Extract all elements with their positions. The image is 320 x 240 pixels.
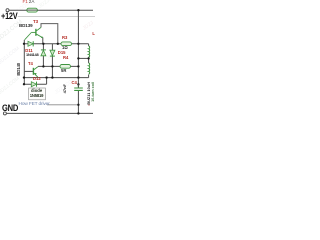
svg-text:JDZJ.COM: JDZJ.COM bbox=[0, 76, 21, 96]
svg-text:JDZJ.COM: JDZJ.COM bbox=[38, 0, 62, 10]
svg-text:JDZJ: JDZJ bbox=[82, 20, 95, 32]
